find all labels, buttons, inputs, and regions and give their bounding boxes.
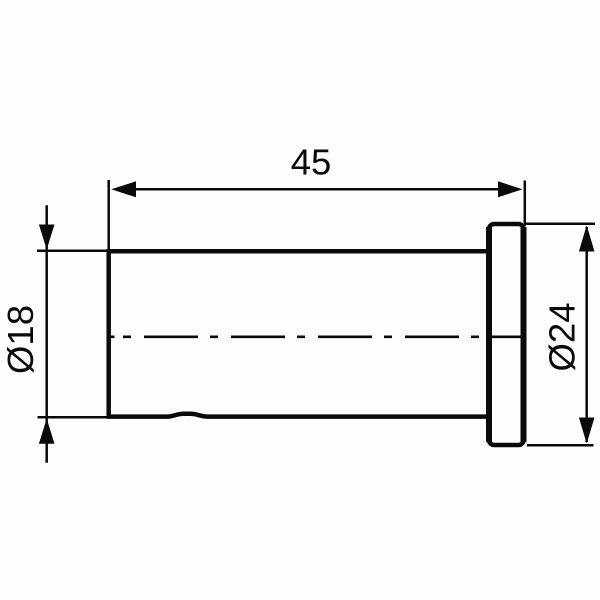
arrowhead bottom (diameter 18 dim, pointing up) xyxy=(39,419,55,444)
arrowhead top (diameter 18 dim, pointing down) xyxy=(39,225,55,250)
extension line right (45 dim) xyxy=(524,181,527,227)
extension line bottom (diameter 18 dim) xyxy=(38,416,114,419)
arrowhead bottom (diameter 24 dim, pointing down) xyxy=(579,418,595,444)
flange (rounded rectangle, right end) xyxy=(489,224,524,445)
dimension line 45 xyxy=(134,188,500,191)
extension line top (diameter 18 dim) xyxy=(37,250,113,253)
extension line top (diameter 24 dim) xyxy=(525,222,595,225)
arrowhead right (45 dim) xyxy=(498,181,523,197)
svg-text:Ø18: Ø18 xyxy=(0,305,41,374)
body outline (cylinder, top/left/bottom edges) xyxy=(109,251,489,416)
svg-text:Ø24: Ø24 xyxy=(542,303,583,372)
arrowhead top (diameter 24 dim, pointing up) xyxy=(579,225,595,251)
svg-text:45: 45 xyxy=(291,142,332,183)
flange left silhouette line xyxy=(486,227,492,442)
extension line left (45 dim) xyxy=(107,180,110,250)
extension line bottom (diameter 24 dim) xyxy=(527,444,594,447)
centerline start dash xyxy=(111,335,115,338)
flange right silhouette line xyxy=(521,227,527,442)
dimension line diameter 24 xyxy=(585,227,588,442)
dimension line diameter 18 xyxy=(45,205,48,463)
centerline (dash-dot axis) xyxy=(123,335,525,338)
arrowhead left (45 dim) xyxy=(111,181,136,197)
